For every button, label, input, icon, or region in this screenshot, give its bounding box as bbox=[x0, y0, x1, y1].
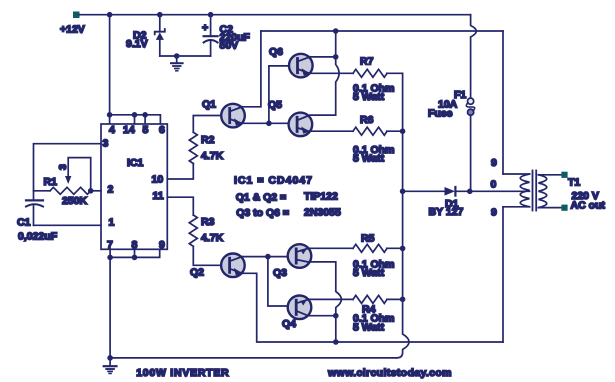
resistor R5 bbox=[353, 244, 403, 252]
IC U1 CD4047 box bbox=[101, 124, 167, 249]
svg-text:BY 127: BY 127 bbox=[429, 206, 464, 218]
resistor R7 bbox=[353, 69, 403, 77]
svg-text:C1: C1 bbox=[17, 217, 31, 229]
svg-text:6: 6 bbox=[159, 124, 165, 136]
resistor R2 bbox=[189, 132, 197, 163]
wire pin4 stub bbox=[109, 115, 111, 124]
wire Q4 emitter to R4 bbox=[309, 298, 353, 300]
svg-text:250K: 250K bbox=[62, 195, 88, 207]
svg-text:AC out: AC out bbox=[571, 200, 606, 212]
svg-text:5 Watt: 5 Watt bbox=[353, 91, 385, 103]
svg-text:IC1: IC1 bbox=[127, 157, 144, 169]
svg-text:Q3 to Q6 =: Q3 to Q6 = bbox=[236, 207, 289, 219]
svg-text:R7: R7 bbox=[360, 56, 374, 68]
resistor R6 bbox=[353, 127, 403, 135]
primary winding bbox=[520, 174, 529, 207]
+12V terminal bbox=[74, 12, 80, 18]
svg-text:Q1 & Q2 =: Q1 & Q2 = bbox=[236, 192, 286, 204]
resistor R1 250K potentiometer bbox=[34, 187, 102, 194]
diode D2 (zener 9.1V) bbox=[155, 15, 165, 56]
node R1 wiper junction bbox=[88, 188, 94, 194]
terminal AC out bottom bbox=[562, 205, 567, 210]
wire Q2 emitter down to transformer wire bbox=[242, 273, 503, 342]
svg-text:0: 0 bbox=[491, 179, 497, 191]
wire Q2 collector to Q3 base bbox=[242, 256, 289, 258]
wire R1 wiper bbox=[68, 158, 91, 191]
svg-text:5 Watt: 5 Watt bbox=[353, 322, 385, 334]
transformer T1 bbox=[503, 171, 562, 211]
diode D1 BY127 bbox=[445, 187, 470, 196]
transistor Q4 (flipped) bbox=[288, 296, 312, 320]
svg-text:4.7K: 4.7K bbox=[201, 150, 224, 162]
wire Q6 emitter to R7 bbox=[310, 72, 353, 74]
svg-text:IC1 = CD4047: IC1 = CD4047 bbox=[234, 175, 312, 187]
svg-text:Q5: Q5 bbox=[268, 99, 282, 111]
node Q4 collector join bbox=[333, 313, 339, 319]
node pin14 stub bbox=[132, 112, 138, 118]
wire IC bottom pin bus bbox=[110, 249, 160, 257]
svg-text:2N3055: 2N3055 bbox=[304, 206, 341, 218]
node lower base bus bbox=[265, 254, 271, 260]
wire rail B drop to Q5 collector with hop over Q6 emitter wire bbox=[311, 31, 339, 115]
wire R2 to Q1 base bbox=[193, 116, 228, 133]
terminal AC out top bbox=[562, 172, 567, 177]
wire rail A drop to fuse with hop over rail B bbox=[471, 15, 477, 99]
wire pin10 to R2 bbox=[167, 164, 193, 180]
node base bus bbox=[266, 121, 272, 127]
svg-text:Q2: Q2 bbox=[190, 267, 204, 279]
svg-text:9: 9 bbox=[491, 157, 497, 169]
node bus/R4 bbox=[400, 297, 406, 303]
node bus/R6 bbox=[400, 128, 406, 134]
svg-text:R1: R1 bbox=[44, 176, 58, 188]
svg-text:R6: R6 bbox=[360, 114, 374, 126]
wire rail B bbox=[261, 30, 503, 32]
capacitor C1 bbox=[26, 200, 43, 225]
wiper arrow bbox=[65, 176, 71, 184]
node pin8 bbox=[132, 255, 138, 261]
svg-text:0,022uF: 0,022uF bbox=[18, 231, 58, 243]
svg-text:5 Watt: 5 Watt bbox=[353, 267, 385, 279]
node ground / bottom rail bbox=[107, 355, 113, 361]
svg-text:1: 1 bbox=[109, 217, 115, 229]
svg-text:5 Watt: 5 Watt bbox=[353, 153, 385, 165]
node pin4 stub bbox=[107, 112, 113, 118]
node bus/R5 bbox=[400, 246, 406, 252]
wire pin1 from C1 bbox=[34, 224, 102, 226]
svg-text:50V: 50V bbox=[220, 40, 239, 52]
svg-text:R2: R2 bbox=[201, 134, 215, 146]
wire right bus bbox=[397, 73, 410, 358]
svg-text:10: 10 bbox=[152, 174, 164, 186]
wire bus to D1 bbox=[403, 190, 445, 192]
ground (top, under D2/C2) bbox=[171, 56, 183, 71]
svg-text:3: 3 bbox=[57, 164, 69, 170]
primary bottom lead bbox=[503, 206, 530, 208]
wire base bus up to Q6 bbox=[269, 66, 289, 123]
core bbox=[532, 171, 534, 211]
wire Q5 emitter to R6 bbox=[310, 130, 353, 132]
svg-text:Q4: Q4 bbox=[282, 318, 296, 330]
node ground junction bbox=[174, 53, 180, 59]
resistor R4 bbox=[353, 295, 403, 303]
svg-text:14: 14 bbox=[123, 124, 135, 136]
svg-text:4: 4 bbox=[109, 124, 115, 136]
wire transformer bottom tap bbox=[502, 207, 504, 342]
node pin5 stub bbox=[142, 112, 148, 118]
wire Q4 collector bbox=[308, 315, 336, 317]
wire pin14 stub bbox=[134, 115, 136, 124]
wire Q6 collector bbox=[310, 56, 336, 58]
ground (bottom) bbox=[104, 358, 117, 374]
node pin7 bbox=[107, 255, 113, 261]
node rail A / IC supply bbox=[107, 12, 113, 18]
wire rail B down right side to transformer top bbox=[502, 31, 504, 174]
svg-text:R3: R3 bbox=[201, 216, 215, 228]
wire Q3 emitter to R5 bbox=[309, 247, 353, 249]
wire D2/C2 bottom bbox=[160, 55, 211, 57]
wire ground drop bbox=[109, 257, 111, 358]
wire pin8 stub bbox=[134, 249, 136, 257]
secondary winding bbox=[539, 175, 547, 208]
wire R3 to Q2 base bbox=[193, 246, 228, 265]
capacitor C2 bbox=[204, 15, 218, 56]
svg-text:9.1V: 9.1V bbox=[126, 38, 148, 50]
svg-text:Q3: Q3 bbox=[273, 267, 287, 279]
wire pin3 to left bbox=[34, 144, 102, 200]
wire vertical +12V to IC top bbox=[109, 15, 111, 115]
node collector bus to transformer wire bbox=[333, 339, 339, 345]
transistor Q5 bbox=[289, 113, 313, 137]
svg-text:T1: T1 bbox=[568, 177, 580, 189]
primary top lead bbox=[503, 173, 530, 175]
svg-text:5: 5 bbox=[143, 124, 149, 136]
svg-text:2: 2 bbox=[108, 184, 114, 196]
wire pin11 to R3 bbox=[167, 197, 193, 215]
svg-text:www.circuitstoday.com: www.circuitstoday.com bbox=[327, 367, 452, 379]
svg-text:Q1: Q1 bbox=[202, 99, 216, 111]
node bus/D1 bbox=[400, 189, 406, 195]
node Q6 collector / rail B drop bbox=[333, 54, 339, 60]
svg-text:3: 3 bbox=[103, 138, 109, 150]
resistor R3 bbox=[189, 215, 197, 246]
wire +12V rail A bbox=[79, 14, 471, 16]
svg-text:+: + bbox=[202, 22, 208, 34]
svg-text:Q6: Q6 bbox=[269, 46, 283, 58]
wire D1 junction to transformer centre tap bbox=[470, 190, 530, 192]
wire bottom rail bbox=[110, 357, 396, 359]
node rail B / Q6 bbox=[333, 28, 339, 34]
wire Q3 collector down with hop over R4 wire bbox=[308, 262, 341, 342]
wire lower base bus down to Q4 bbox=[268, 257, 289, 306]
node rail A / C2 bbox=[208, 12, 214, 18]
transistor Q2 bbox=[221, 253, 245, 277]
transistor Q1 bbox=[221, 104, 245, 128]
svg-text:4.7K: 4.7K bbox=[201, 232, 224, 244]
svg-text:R5: R5 bbox=[361, 233, 375, 245]
secondary bottom lead bbox=[539, 207, 563, 209]
transistor Q6 bbox=[289, 54, 313, 78]
wire Q1 emitter to driver bases bbox=[242, 122, 289, 124]
node rail A / D2 bbox=[157, 12, 163, 18]
wire IC top pin bus bbox=[110, 115, 161, 124]
node D1 / fuse bbox=[467, 189, 473, 195]
fuse F1 bbox=[466, 98, 474, 191]
svg-text:9: 9 bbox=[491, 207, 497, 219]
svg-text:11: 11 bbox=[153, 190, 164, 202]
svg-text:TIP122: TIP122 bbox=[304, 191, 338, 203]
wire Q1 collector to rail B bbox=[242, 31, 261, 107]
transistor Q3 (flipped) bbox=[288, 244, 312, 268]
svg-text:Fuse: Fuse bbox=[428, 108, 453, 120]
svg-text:+12V: +12V bbox=[60, 24, 85, 36]
svg-text:100W INVERTER: 100W INVERTER bbox=[136, 367, 229, 379]
wire pin5 stub bbox=[144, 115, 146, 124]
secondary top lead bbox=[539, 174, 563, 176]
